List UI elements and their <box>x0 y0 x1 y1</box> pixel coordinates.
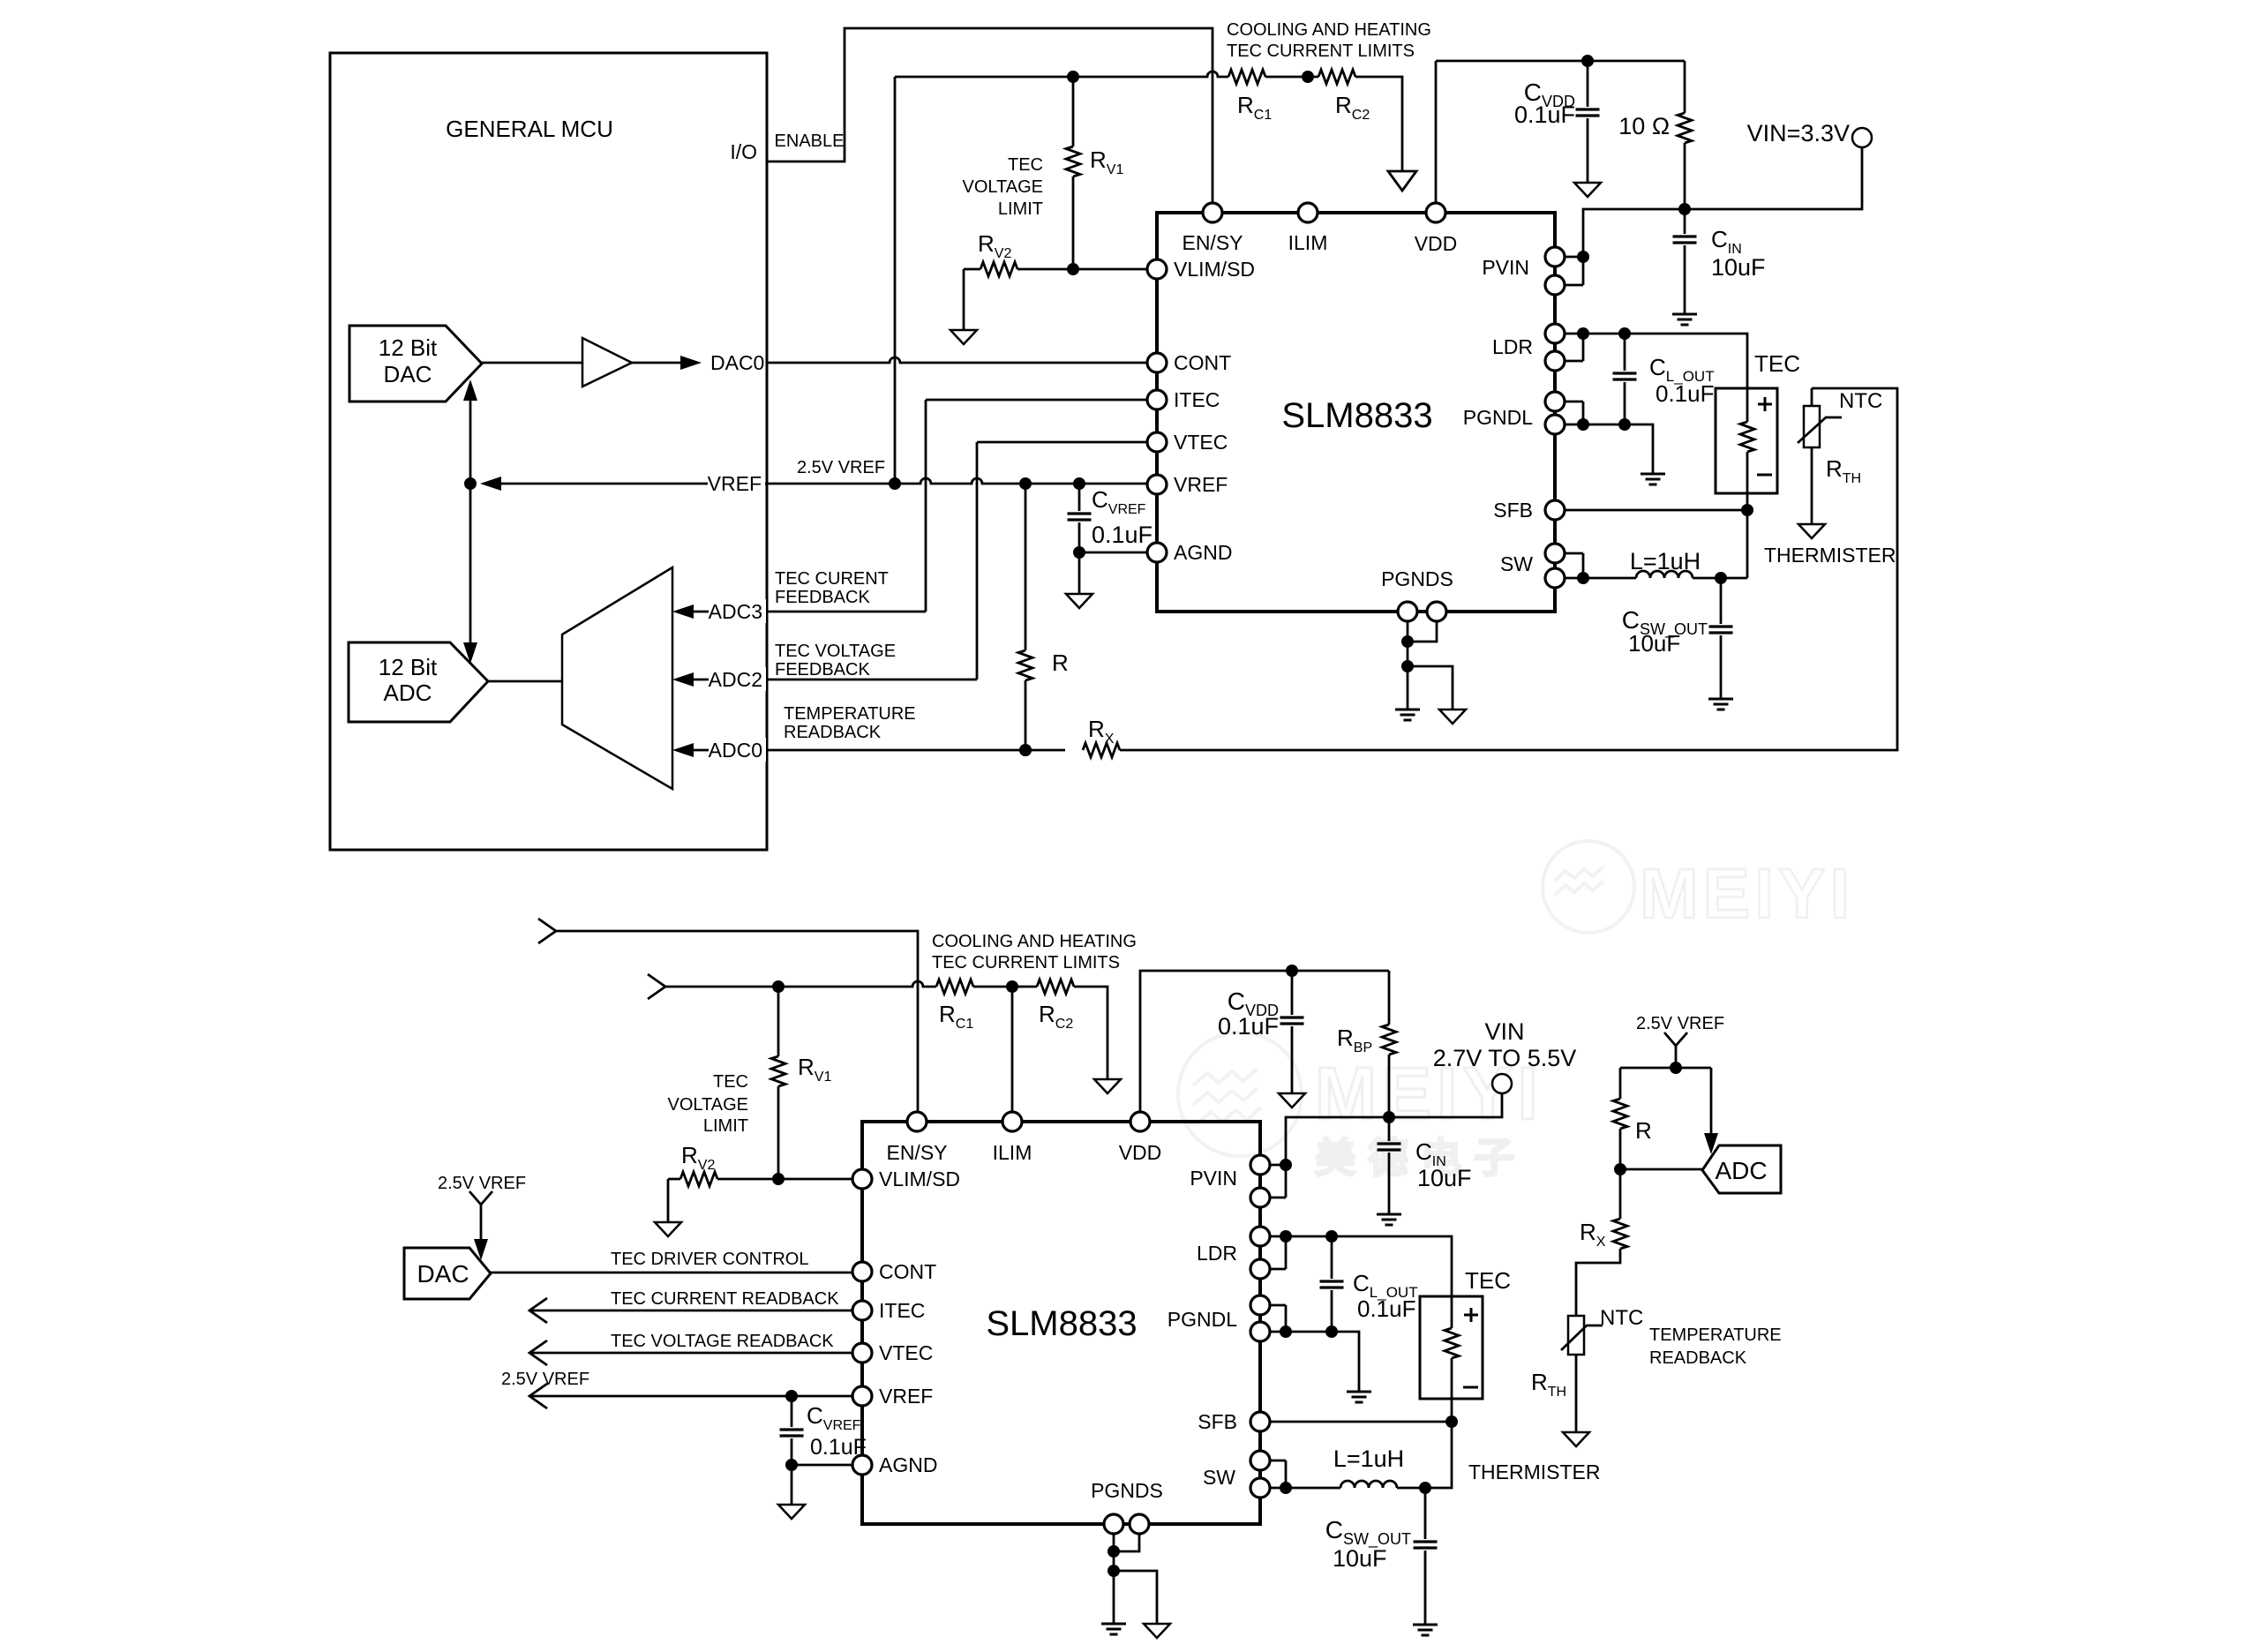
svg-text:FEEDBACK: FEEDBACK <box>775 660 870 680</box>
svg-text:TEC DRIVER CONTROL: TEC DRIVER CONTROL <box>611 1250 808 1269</box>
svg-text:12 Bit: 12 Bit <box>379 334 438 361</box>
svg-text:2.7V TO 5.5V: 2.7V TO 5.5V <box>1433 1045 1577 1071</box>
svg-text:AGND: AGND <box>879 1453 937 1476</box>
svg-text:NTC: NTC <box>1839 389 1882 413</box>
svg-text:2.5V VREF: 2.5V VREF <box>797 458 885 477</box>
svg-text:L=1uH: L=1uH <box>1630 548 1701 574</box>
svg-text:DAC0: DAC0 <box>710 351 764 374</box>
svg-text:EN/SY: EN/SY <box>1182 231 1243 254</box>
svg-text:PVIN: PVIN <box>1190 1167 1237 1190</box>
svg-text:CONT: CONT <box>1174 351 1231 374</box>
svg-text:VTEC: VTEC <box>1174 431 1228 454</box>
svg-text:PVIN: PVIN <box>1482 256 1529 279</box>
svg-text:LDR: LDR <box>1197 1242 1237 1265</box>
svg-text:EN/SY: EN/SY <box>886 1141 947 1164</box>
svg-text:TEC: TEC <box>1008 155 1043 175</box>
svg-text:SLM8833: SLM8833 <box>1281 396 1432 435</box>
svg-text:2.5V VREF: 2.5V VREF <box>501 1370 589 1389</box>
svg-text:ENABLE: ENABLE <box>775 131 845 151</box>
svg-text:TEC: TEC <box>1754 350 1800 377</box>
svg-text:2.5V VREF: 2.5V VREF <box>1636 1014 1724 1033</box>
svg-text:TEC: TEC <box>1465 1267 1511 1294</box>
svg-text:THERMISTER: THERMISTER <box>1764 544 1896 567</box>
svg-text:PGNDL: PGNDL <box>1463 406 1533 429</box>
svg-text:MEIYI: MEIYI <box>1640 854 1854 933</box>
svg-text:VREF: VREF <box>708 472 762 495</box>
svg-text:TEC CURRENT READBACK: TEC CURRENT READBACK <box>611 1289 839 1309</box>
svg-text:R: R <box>1052 650 1069 676</box>
svg-text:L=1uH: L=1uH <box>1333 1445 1404 1472</box>
svg-text:TEMPERATURE: TEMPERATURE <box>784 704 916 724</box>
svg-text:VOLTAGE: VOLTAGE <box>962 177 1043 197</box>
svg-text:10uF: 10uF <box>1628 630 1680 657</box>
svg-text:PGNDL: PGNDL <box>1168 1308 1237 1331</box>
svg-text:DAC: DAC <box>417 1260 469 1288</box>
svg-text:TEMPERATURE: TEMPERATURE <box>1649 1325 1782 1345</box>
svg-text:ILIM: ILIM <box>1288 231 1328 254</box>
svg-text:ADC2: ADC2 <box>709 668 762 691</box>
svg-text:VLIM/SD: VLIM/SD <box>1174 258 1255 281</box>
svg-text:VIN: VIN <box>1484 1018 1524 1045</box>
svg-text:LIMIT: LIMIT <box>998 199 1043 219</box>
svg-text:READBACK: READBACK <box>784 723 882 742</box>
svg-text:CONT: CONT <box>879 1260 936 1283</box>
svg-text:ITEC: ITEC <box>1174 388 1220 411</box>
svg-text:TEC CURENT: TEC CURENT <box>775 569 889 589</box>
svg-text:VTEC: VTEC <box>879 1341 933 1364</box>
svg-text:VREF: VREF <box>879 1385 933 1408</box>
svg-text:0.1uF: 0.1uF <box>1656 380 1715 407</box>
svg-text:0.1uF: 0.1uF <box>1092 522 1153 548</box>
svg-text:VIN=3.3V: VIN=3.3V <box>1747 120 1850 146</box>
svg-text:SW: SW <box>1203 1466 1235 1489</box>
svg-text:TEC CURRENT LIMITS: TEC CURRENT LIMITS <box>1227 41 1415 61</box>
svg-text:VDD: VDD <box>1415 232 1458 255</box>
svg-text:I/O: I/O <box>730 140 757 163</box>
svg-text:PGNDS: PGNDS <box>1381 567 1453 590</box>
svg-text:THERMISTER: THERMISTER <box>1468 1461 1601 1483</box>
svg-text:NTC: NTC <box>1600 1306 1643 1330</box>
svg-text:SLM8833: SLM8833 <box>986 1304 1137 1343</box>
svg-text:0.1uF: 0.1uF <box>1218 1013 1279 1040</box>
svg-text:DAC: DAC <box>384 361 432 387</box>
svg-text:ITEC: ITEC <box>879 1299 925 1322</box>
svg-text:0.1uF: 0.1uF <box>1357 1295 1416 1322</box>
svg-text:VDD: VDD <box>1119 1141 1162 1164</box>
svg-text:ADC: ADC <box>1715 1157 1767 1184</box>
svg-text:TEC VOLTAGE READBACK: TEC VOLTAGE READBACK <box>611 1332 834 1351</box>
svg-text:ADC: ADC <box>384 680 432 706</box>
svg-text:COOLING AND HEATING: COOLING AND HEATING <box>1227 20 1431 40</box>
svg-text:TEC VOLTAGE: TEC VOLTAGE <box>775 642 896 661</box>
svg-text:AGND: AGND <box>1174 541 1232 564</box>
svg-text:READBACK: READBACK <box>1649 1348 1747 1368</box>
svg-text:ADC0: ADC0 <box>709 739 762 762</box>
svg-text:VLIM/SD: VLIM/SD <box>879 1168 960 1190</box>
svg-text:12 Bit: 12 Bit <box>379 654 438 680</box>
svg-text:GENERAL MCU: GENERAL MCU <box>446 116 613 142</box>
svg-text:SFB: SFB <box>1198 1410 1237 1433</box>
svg-text:10uF: 10uF <box>1333 1545 1387 1572</box>
svg-text:10uF: 10uF <box>1417 1165 1472 1191</box>
svg-text:10 Ω: 10 Ω <box>1618 113 1670 139</box>
svg-text:10uF: 10uF <box>1711 254 1766 281</box>
svg-text:SW: SW <box>1500 552 1533 575</box>
svg-text:VOLTAGE: VOLTAGE <box>667 1095 748 1115</box>
svg-text:2.5V VREF: 2.5V VREF <box>438 1174 526 1193</box>
svg-text:PGNDS: PGNDS <box>1091 1479 1163 1502</box>
svg-text:ILIM: ILIM <box>993 1141 1032 1164</box>
svg-text:VREF: VREF <box>1174 473 1228 496</box>
svg-text:R: R <box>1635 1117 1652 1144</box>
svg-text:TEC CURRENT LIMITS: TEC CURRENT LIMITS <box>932 953 1120 972</box>
svg-text:SFB: SFB <box>1493 499 1533 522</box>
svg-text:0.1uF: 0.1uF <box>810 1435 867 1460</box>
svg-text:0.1uF: 0.1uF <box>1514 101 1575 128</box>
svg-text:TEC: TEC <box>713 1072 748 1092</box>
svg-text:COOLING AND HEATING: COOLING AND HEATING <box>932 932 1137 951</box>
svg-text:LDR: LDR <box>1492 335 1533 358</box>
svg-text:ADC3: ADC3 <box>709 600 762 623</box>
svg-text:FEEDBACK: FEEDBACK <box>775 588 870 607</box>
svg-text:LIMIT: LIMIT <box>703 1116 748 1136</box>
